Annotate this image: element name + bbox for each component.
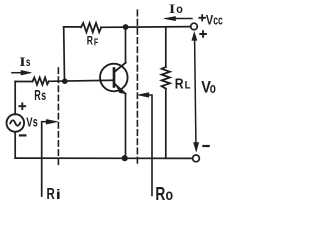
wire: RL branch upper lead [165, 27, 167, 67]
svg-text:i: i [56, 186, 61, 202]
wire: left rail vertical above source [14, 82, 16, 115]
svg-text:s: s [41, 87, 46, 103]
minus sign of source Vs [20, 134, 25, 136]
transistor emitter diagonal [114, 83, 125, 93]
svg-text:s: s [33, 115, 38, 130]
svg-text:o: o [210, 81, 216, 97]
resistor RF zigzag [81, 23, 101, 32]
plus sign of source Vs [19, 103, 25, 109]
svg-text:s: s [26, 55, 31, 69]
minus sign of Vo bottom [203, 145, 208, 147]
Vo top arrowhead [192, 32, 197, 40]
plus sign of Vo top [200, 31, 206, 37]
wire: bottom rail [15, 157, 192, 159]
plus sign of +Vcc [199, 15, 205, 20]
svg-text:cc: cc [213, 12, 223, 27]
wire: below source down to bottom rail [14, 132, 16, 158]
svg-text:R: R [87, 34, 93, 48]
Ro output-resistance indicator line [149, 95, 152, 196]
wire: RF left vertical leg down to base node [63, 27, 66, 81]
Ri arrowhead [46, 120, 57, 125]
terminal: bottom output open circle [193, 155, 200, 162]
node: base junction dot [62, 78, 68, 84]
port dashed line: input [57, 68, 59, 166]
node: emitter bottom-rail junction dot [122, 155, 128, 161]
Io output current arrow shaft [173, 18, 192, 20]
wire: base wire left segment [15, 81, 32, 83]
svg-text:I: I [19, 55, 25, 69]
wire: top rail left segment [64, 26, 81, 28]
source Vs sine symbol [10, 120, 20, 125]
wire: emitter vertical down to bottom rail [125, 94, 127, 158]
svg-text:F: F [94, 37, 98, 48]
svg-text:R: R [175, 76, 184, 92]
Ri input-resistance indicator line [42, 122, 46, 196]
transistor base bar [113, 69, 116, 87]
wire: collector vertical up to top rail [125, 27, 127, 63]
svg-text:R: R [47, 186, 56, 203]
port dashed line: output [136, 10, 138, 165]
Is arrowhead [21, 70, 31, 75]
terminal: +Vcc open circle [191, 23, 198, 30]
wire: base node to transistor base [49, 80, 114, 81]
Is source arrow shaft [12, 72, 22, 74]
svg-text:L: L [185, 79, 191, 91]
svg-text:R: R [34, 88, 41, 104]
Vo bottom arrowhead [194, 143, 199, 152]
Io arrowhead [164, 17, 176, 21]
svg-text:R: R [155, 184, 165, 204]
svg-text:I: I [169, 1, 175, 16]
Ro arrowhead [138, 93, 149, 98]
wire: top rail right of RF to +Vcc terminal [101, 26, 191, 29]
source Vs circle [7, 114, 25, 132]
transistor collector diagonal [114, 63, 125, 72]
Vo measure line [195, 40, 196, 143]
resistor RL zigzag [162, 67, 170, 89]
emitter arrowhead [116, 85, 125, 93]
node: collector top-rail junction dot [123, 24, 129, 30]
svg-text:o: o [166, 187, 174, 204]
transistor Q1 circle [100, 64, 128, 92]
resistor Rs zigzag [33, 78, 49, 85]
svg-text:o: o [176, 2, 183, 16]
wire: RL lower lead to bottom rail [165, 89, 167, 159]
